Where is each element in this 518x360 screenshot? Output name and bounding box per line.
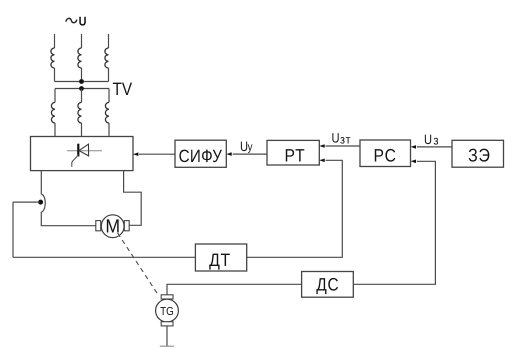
svg-text:U: U — [424, 132, 432, 147]
node L1 top wire — [54, 34, 56, 48]
arrowhead into RT upper input — [319, 144, 324, 148]
arrowhead into rectifier — [133, 152, 138, 156]
wire RS output to RT — [326, 145, 361, 147]
thyristor anode-cathode line — [67, 150, 102, 152]
arrowhead into SIFU — [226, 152, 231, 156]
transformer TV primary winding 1 — [51, 48, 55, 68]
thyristor cathode bar — [77, 144, 79, 157]
wire secondary leads to rectifier — [55, 123, 109, 137]
junction dot positive rail tap — [38, 200, 43, 205]
wire DT output to RT feedback — [247, 160, 343, 257]
wire tap to left rail — [13, 201, 40, 203]
junction dot primary neutral — [79, 79, 84, 84]
arrowhead into RS upper input — [411, 145, 416, 149]
svg-text:ДТ: ДТ — [209, 250, 231, 270]
tachogenerator TG circle — [156, 299, 179, 322]
wire primary leads to bus — [55, 68, 109, 82]
rectifier bridge box UZ — [31, 137, 134, 171]
TG bottom terminal tick — [160, 345, 174, 347]
wire RT output to SIFU — [233, 153, 267, 155]
wire left rail to DT — [13, 256, 195, 258]
block DS box — [302, 272, 354, 298]
transformer TV primary winding 2 — [78, 48, 82, 68]
svg-text:ДС: ДС — [316, 275, 339, 295]
transformer TV secondary winding 3 — [105, 102, 109, 123]
wire secondary bus bar — [55, 88, 109, 90]
arrowhead into RT lower input — [319, 159, 324, 163]
tachogenerator TG bottom brush — [161, 322, 173, 326]
wire rectifier positive output with hop — [41, 171, 96, 226]
node L2 top wire — [81, 34, 83, 48]
svg-text:TV: TV — [113, 79, 133, 99]
wire SIFU output to rectifier — [139, 153, 175, 155]
mechanical shaft dashed link M to TG — [118, 233, 159, 296]
wire ZE output to RS — [417, 146, 452, 148]
wire rectifier negative output — [124, 171, 142, 226]
block SIFU box — [175, 140, 226, 167]
motor M right brush — [124, 221, 129, 231]
svg-text:у: у — [248, 141, 253, 153]
junction dot secondary neutral — [79, 86, 84, 91]
svg-text:СИФУ: СИФУ — [179, 146, 223, 166]
node L3 top wire — [108, 34, 110, 48]
tachogenerator TG top brush — [161, 295, 173, 299]
svg-text:U: U — [79, 14, 87, 29]
svg-text:TG: TG — [160, 305, 174, 318]
wire DS output to RS feedback — [353, 161, 435, 284]
transformer TV secondary winding 1 — [51, 102, 55, 123]
transformer TV primary winding 3 — [105, 48, 109, 68]
thyristor gate lead — [72, 155, 79, 167]
block DT box — [195, 244, 246, 271]
wire primary bus bar — [55, 81, 109, 83]
label ~U supply — [66, 18, 77, 22]
wire left rail down — [12, 202, 14, 257]
block RS box — [360, 140, 411, 167]
wire TG to DS — [167, 284, 302, 295]
thyristor triangle — [79, 144, 89, 156]
transformer TV secondary winding 2 — [78, 102, 82, 123]
block RT box — [267, 140, 319, 165]
svg-text:U: U — [332, 131, 340, 146]
arrowhead into RS lower input — [411, 160, 416, 164]
svg-text:РТ: РТ — [284, 146, 305, 166]
wire secondary leads from bus — [55, 89, 109, 103]
svg-text:зт: зт — [340, 133, 351, 147]
motor M left brush — [96, 221, 101, 231]
motor M circle — [101, 215, 124, 238]
wire TG bottom lead — [166, 326, 168, 346]
svg-text:ЗЭ: ЗЭ — [468, 144, 490, 165]
block ZE box — [452, 140, 504, 167]
svg-text:з: з — [433, 134, 438, 148]
svg-text:РС: РС — [374, 146, 397, 166]
